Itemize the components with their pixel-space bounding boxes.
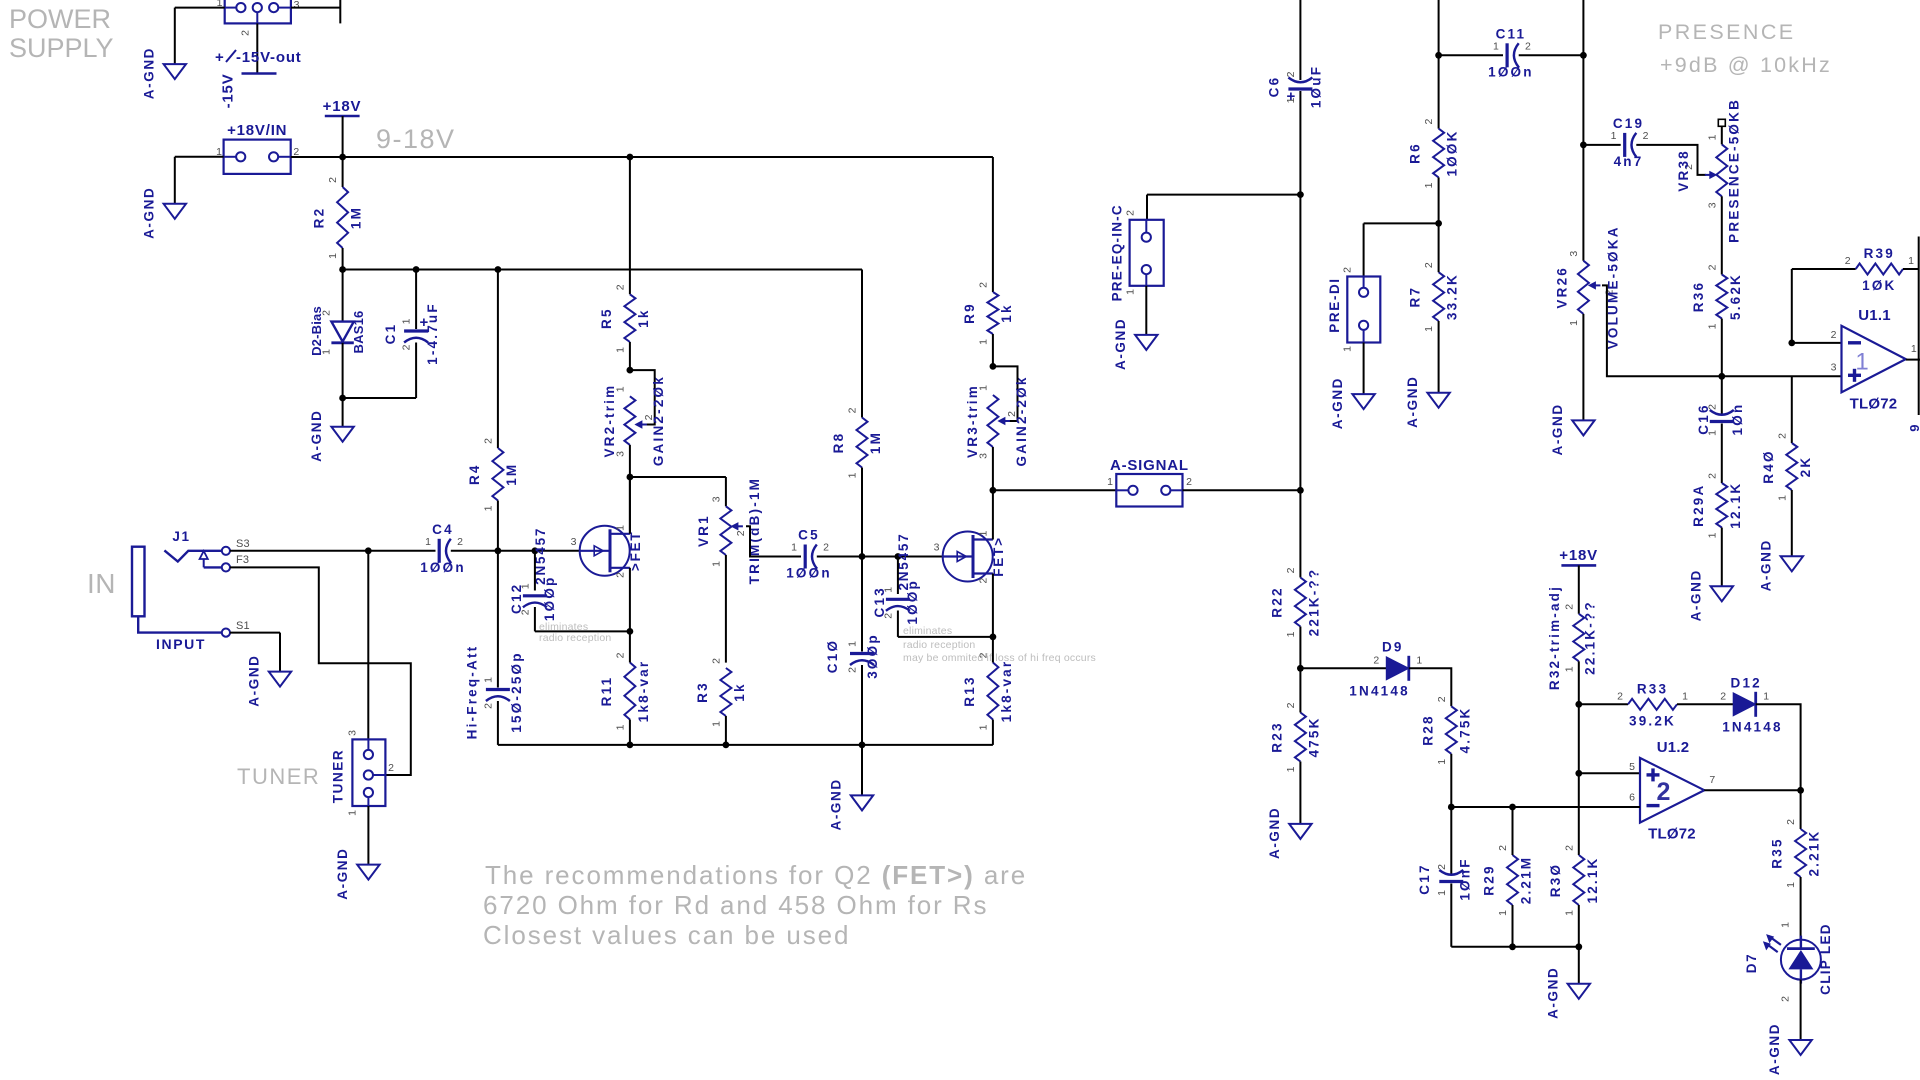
- svg-text:+18V: +18V: [1559, 547, 1598, 564]
- wire: [1579, 703, 1628, 705]
- wire: [1578, 565, 1580, 613]
- svg-text:1: 1: [1911, 343, 1917, 355]
- junction: [990, 487, 997, 494]
- svg-text:GAIN2-2Øk: GAIN2-2Øk: [1014, 375, 1029, 466]
- svg-text:+: +: [215, 49, 224, 66]
- capacitor C19 (4n7): [1611, 116, 1649, 169]
- svg-text:2: 2: [1285, 702, 1297, 708]
- junction: [1797, 787, 1804, 794]
- svg-text:A-GND: A-GND: [1545, 967, 1560, 1019]
- svg-text:PRESENCE-5ØKB: PRESENCE-5ØKB: [1726, 98, 1741, 243]
- svg-text:S3: S3: [236, 538, 250, 550]
- wire: [1147, 194, 1300, 196]
- junction: [627, 628, 634, 635]
- wire: [415, 343, 417, 399]
- svg-text:1N4148: 1N4148: [1722, 719, 1783, 734]
- svg-text:1: 1: [615, 525, 627, 531]
- svg-text:C1: C1: [383, 323, 398, 345]
- svg-text:1: 1: [1423, 326, 1435, 332]
- wire: [817, 556, 862, 558]
- potentiometer VR3-trim (GAIN2-20k): [965, 375, 1029, 466]
- resistor R6 (100K): [1408, 119, 1460, 189]
- connector TUNER (3-pin): [331, 730, 395, 816]
- resistor R8 (1M): [831, 407, 883, 478]
- wire: [1677, 703, 1733, 705]
- svg-text:R3: R3: [695, 681, 710, 703]
- svg-text:A-GND: A-GND: [309, 410, 324, 462]
- svg-text:1: 1: [1855, 349, 1869, 376]
- junction: [1297, 487, 1304, 494]
- wire: [343, 397, 417, 399]
- svg-text:INPUT: INPUT: [156, 636, 206, 652]
- svg-text:D7: D7: [1744, 953, 1759, 973]
- connector PRE-EQ-IN-C (2-pin): [1110, 204, 1164, 301]
- svg-text:1: 1: [1563, 910, 1575, 916]
- svg-text:1: 1: [977, 339, 989, 345]
- wire ground bus: [498, 744, 993, 746]
- svg-text:1ØK: 1ØK: [1862, 278, 1896, 293]
- resistor R39 (10K): [1845, 246, 1914, 293]
- svg-text:PRE-EQ-IN-C: PRE-EQ-IN-C: [1110, 204, 1125, 301]
- junction: [1575, 770, 1582, 777]
- svg-text:1ØnF: 1ØnF: [1457, 857, 1472, 900]
- svg-text:R35: R35: [1770, 837, 1785, 868]
- svg-text:6: 6: [1629, 792, 1635, 804]
- svg-text:2: 2: [1497, 845, 1509, 851]
- svg-text:IN: IN: [87, 568, 116, 599]
- wire: [629, 720, 631, 745]
- wire: [629, 157, 631, 294]
- svg-text:1: 1: [1125, 289, 1137, 295]
- svg-text:S1: S1: [236, 620, 250, 632]
- svg-text:TLØ72: TLØ72: [1850, 395, 1898, 412]
- wire: [1578, 947, 1580, 984]
- svg-text:2: 2: [1845, 255, 1851, 267]
- wire ground bus 2: [1451, 946, 1579, 948]
- svg-text:1: 1: [847, 472, 859, 478]
- junction: [1575, 943, 1582, 950]
- svg-text:2.21K: 2.21K: [1807, 829, 1822, 876]
- svg-text:1: 1: [614, 347, 626, 353]
- wire: [897, 611, 899, 637]
- svg-text:1: 1: [519, 583, 531, 589]
- power -15V: [220, 74, 277, 109]
- ground A-GND: [1550, 403, 1595, 455]
- svg-text:A-GND: A-GND: [1267, 807, 1282, 859]
- power +18V: [323, 98, 362, 116]
- wire: [1918, 237, 1920, 416]
- svg-text:2: 2: [321, 310, 333, 316]
- wire: [535, 550, 579, 552]
- wire +18V rail: [291, 156, 993, 158]
- resistor R4 (1M): [467, 438, 519, 512]
- svg-text:1: 1: [425, 536, 431, 548]
- svg-text:2: 2: [1285, 71, 1297, 77]
- svg-text:A-GND: A-GND: [1330, 377, 1345, 429]
- resistor R9 (1k): [962, 282, 1014, 345]
- capacitor C10 (300p): [825, 633, 880, 679]
- wire: [1409, 668, 1452, 706]
- text eliminates radio reception (Q2): [903, 625, 1096, 664]
- svg-text:3: 3: [1568, 251, 1580, 257]
- svg-text:1: 1: [1776, 495, 1788, 501]
- wire: [1721, 376, 1723, 414]
- svg-text:+18V: +18V: [323, 98, 362, 115]
- svg-text:Closest values can be used: Closest values can be used: [483, 920, 850, 950]
- svg-text:R29: R29: [1482, 864, 1497, 895]
- svg-text:radio reception: radio reception: [539, 632, 611, 644]
- op-amp U1.2 (TL072): [1629, 739, 1715, 843]
- wire: [725, 477, 727, 506]
- svg-text:3: 3: [1831, 361, 1837, 373]
- wire: [1721, 424, 1723, 484]
- svg-text:BAS16: BAS16: [351, 311, 366, 354]
- wire: [1299, 668, 1301, 712]
- wire: [1450, 884, 1452, 947]
- svg-text:2: 2: [1780, 996, 1792, 1002]
- svg-text:R29A: R29A: [1691, 484, 1706, 527]
- resistor R13 (1k8-var): [962, 652, 1014, 730]
- resistor R29 (2.21M): [1482, 845, 1534, 916]
- svg-text:+18V/IN: +18V/IN: [227, 122, 287, 139]
- junction: [1788, 340, 1795, 347]
- wire: [1299, 627, 1301, 669]
- svg-text:R11: R11: [599, 676, 614, 707]
- svg-text:2: 2: [327, 177, 339, 183]
- svg-text:2: 2: [388, 762, 394, 774]
- svg-text:2: 2: [1656, 778, 1670, 806]
- svg-text:A-GND: A-GND: [1550, 403, 1565, 455]
- svg-text:2K: 2K: [1798, 456, 1813, 478]
- wire: [1299, 91, 1301, 490]
- svg-text:VR1: VR1: [696, 514, 711, 547]
- junction: [723, 742, 730, 749]
- svg-text:TLØ72: TLØ72: [1648, 826, 1696, 843]
- wire: [1721, 528, 1723, 587]
- diode D12 (1N4148): [1720, 675, 1782, 734]
- wire: [1903, 268, 1919, 270]
- resistor R33 (39.2K): [1617, 681, 1688, 728]
- junction: [1448, 804, 1455, 811]
- potentiometer VR26 (VOLUME-50KA): [1554, 225, 1620, 349]
- power +18V: [1559, 547, 1598, 565]
- svg-text:2: 2: [1706, 473, 1718, 479]
- svg-text:+: +: [420, 314, 429, 331]
- junction: [365, 547, 372, 554]
- svg-text:1: 1: [710, 561, 722, 567]
- svg-text:475K: 475K: [1306, 716, 1321, 757]
- svg-text:1: 1: [1780, 922, 1792, 928]
- svg-text:4n7: 4n7: [1614, 154, 1644, 169]
- capacitor C6 (10uF): [1266, 65, 1323, 108]
- wire: [451, 550, 498, 552]
- svg-text:1: 1: [401, 318, 413, 324]
- LED D7 (CLIP LED): [1744, 922, 1833, 1002]
- svg-text:1: 1: [1342, 346, 1354, 352]
- svg-text:1k8-var: 1k8-var: [636, 660, 651, 723]
- ground A-GND: [1113, 318, 1158, 370]
- potentiometer VR38 (PRESENCE-50KB): [1676, 98, 1742, 243]
- svg-text:R6: R6: [1408, 142, 1423, 164]
- resistor R7 (33.2K): [1408, 262, 1460, 332]
- ground A-GND: [1758, 539, 1803, 591]
- svg-text:1: 1: [1107, 476, 1113, 488]
- svg-text:-15V-out: -15V-out: [236, 49, 302, 66]
- svg-text:1ØuF: 1ØuF: [1308, 65, 1323, 108]
- ground A-GND: [1330, 377, 1375, 429]
- svg-text:2: 2: [482, 703, 494, 709]
- wire bias bus: [343, 269, 862, 271]
- wire: [256, 23, 258, 73]
- wire: [1578, 704, 1580, 773]
- wire: [291, 7, 340, 9]
- svg-text:A-GND: A-GND: [1113, 318, 1128, 370]
- svg-text:C17: C17: [1417, 863, 1432, 894]
- wire: [497, 501, 499, 551]
- junction: [413, 266, 420, 273]
- junction: [1435, 52, 1442, 59]
- svg-text:2: 2: [1373, 654, 1379, 666]
- junction: [1509, 804, 1516, 811]
- svg-text:J1: J1: [172, 529, 190, 544]
- wire: [342, 343, 344, 398]
- svg-text:R5: R5: [599, 307, 614, 329]
- potentiometer VR2-trim (GAIN2-20k): [602, 375, 666, 466]
- op-amp U1.1 (TL072): [1831, 307, 1917, 413]
- resistor R35 (2.21K): [1770, 819, 1822, 888]
- wire: [342, 157, 344, 187]
- wire: [629, 445, 631, 477]
- svg-text:2: 2: [1436, 864, 1448, 870]
- wire: [861, 557, 863, 652]
- svg-text:2: 2: [519, 609, 531, 615]
- svg-text:A-GND: A-GND: [247, 654, 262, 706]
- svg-text:-15V: -15V: [220, 74, 237, 109]
- wire: [725, 716, 727, 745]
- wire: [1721, 196, 1723, 274]
- svg-text:U1.2: U1.2: [1657, 739, 1690, 756]
- svg-text:1: 1: [1682, 690, 1688, 702]
- svg-text:>FET: >FET: [628, 531, 643, 572]
- svg-text:1: 1: [1908, 255, 1914, 267]
- svg-text:A-GND: A-GND: [335, 847, 350, 899]
- net label +/-15V-out: [215, 49, 302, 66]
- svg-text:2: 2: [1186, 476, 1192, 488]
- wire VR2 feedback loop: [630, 370, 655, 424]
- svg-text:2: 2: [1342, 267, 1354, 273]
- wire: [1299, 490, 1301, 577]
- capacitor C4 (100n): [420, 522, 466, 575]
- wire: [862, 556, 898, 558]
- capacitor C1 (1-4.7uF): [383, 302, 440, 365]
- resistor R32-trim-adj (22.1K-??): [1547, 585, 1598, 690]
- wire: [1438, 321, 1440, 393]
- wire: [1792, 268, 1856, 270]
- wire: [1791, 376, 1793, 443]
- svg-text:1M: 1M: [349, 206, 364, 229]
- svg-text:1: 1: [978, 530, 990, 536]
- wire: [629, 631, 631, 662]
- svg-text:R32-trim-adj: R32-trim-adj: [1547, 585, 1562, 690]
- wire: [535, 630, 630, 632]
- svg-text:R4: R4: [467, 463, 482, 485]
- svg-text:D12: D12: [1731, 675, 1762, 690]
- svg-text:1: 1: [1763, 690, 1769, 702]
- svg-text:2: 2: [847, 667, 859, 673]
- svg-text:2: 2: [1125, 210, 1137, 216]
- wire: [1450, 754, 1452, 807]
- svg-text:1ØØK: 1ØØK: [1445, 129, 1460, 176]
- svg-text:R2: R2: [312, 207, 327, 229]
- wire: [230, 632, 280, 634]
- svg-text:2: 2: [401, 344, 413, 350]
- wire: [1300, 667, 1386, 669]
- svg-text:2: 2: [1436, 696, 1448, 702]
- svg-text:2: 2: [1706, 404, 1718, 410]
- wire: [1183, 489, 1301, 491]
- junction: [627, 154, 634, 161]
- junction: [495, 266, 502, 273]
- wire: [415, 270, 417, 330]
- wire: [368, 550, 435, 552]
- junction: [1297, 191, 1304, 198]
- svg-text:5: 5: [1629, 761, 1635, 773]
- wire: [1438, 177, 1440, 223]
- svg-text:9-18V: 9-18V: [376, 124, 456, 154]
- svg-text:A-GND: A-GND: [1688, 569, 1703, 621]
- svg-text:6720 Ohm for Rd and 458 Ohm fo: 6720 Ohm for Rd and 458 Ohm for Rs: [483, 890, 988, 920]
- svg-text:2: 2: [240, 30, 252, 36]
- wire: [1519, 54, 1584, 56]
- diode D9 (1N4148): [1349, 639, 1422, 698]
- svg-text:2: 2: [1563, 845, 1575, 851]
- svg-text:1ØØn: 1ØØn: [786, 566, 832, 581]
- wire: [1512, 905, 1514, 947]
- wire: [630, 476, 726, 478]
- wire: [534, 607, 536, 631]
- svg-text:A-GND: A-GND: [141, 187, 156, 239]
- svg-text:VR2-trim: VR2-trim: [602, 384, 617, 458]
- svg-text:1: 1: [482, 677, 494, 683]
- junction: [1580, 52, 1587, 59]
- wire: [993, 489, 1116, 491]
- svg-text:3: 3: [294, 0, 300, 11]
- svg-text:1: 1: [1285, 631, 1297, 637]
- svg-text:1: 1: [882, 587, 894, 593]
- wire: [992, 637, 994, 663]
- svg-text:1: 1: [977, 385, 989, 391]
- wire: [1578, 773, 1580, 855]
- svg-text:TUNER: TUNER: [237, 764, 320, 789]
- resistor R22 (221K-??): [1269, 567, 1321, 637]
- svg-text:1M: 1M: [504, 463, 519, 486]
- svg-text:1: 1: [1706, 430, 1718, 436]
- wire: [497, 701, 499, 745]
- svg-text:1: 1: [791, 542, 797, 554]
- svg-text:Hi-Freq-Att: Hi-Freq-Att: [464, 645, 479, 740]
- svg-text:39.2K: 39.2K: [1629, 713, 1676, 728]
- wire: [629, 568, 631, 632]
- wire: [1299, 762, 1301, 824]
- wire: [1364, 222, 1439, 224]
- svg-text:15Ø-25Øp: 15Ø-25Øp: [509, 651, 524, 732]
- svg-text:A-GND: A-GND: [1758, 539, 1773, 591]
- svg-text:R3Ø: R3Ø: [1548, 863, 1563, 897]
- wire: [230, 550, 368, 552]
- capacitor C5 (100n): [786, 528, 832, 581]
- wire: [861, 745, 863, 796]
- wire: [279, 633, 281, 672]
- svg-text:3: 3: [977, 453, 989, 459]
- svg-text:2: 2: [1776, 433, 1788, 439]
- wire: [174, 8, 176, 65]
- wire: [367, 806, 369, 865]
- svg-text:C11: C11: [1496, 26, 1527, 41]
- capacitor Hi-Freq-Att (150-250p): [464, 645, 524, 740]
- wire: [1578, 661, 1580, 704]
- svg-text:VR26: VR26: [1554, 266, 1569, 309]
- wire: [1791, 269, 1793, 343]
- wire: [861, 270, 863, 418]
- svg-text:1N4148: 1N4148: [1349, 683, 1410, 698]
- wire: [1791, 490, 1793, 556]
- wire: [342, 248, 344, 270]
- resistor R3 (1k): [695, 658, 747, 727]
- svg-text:eliminates: eliminates: [903, 625, 952, 637]
- wire: [898, 556, 943, 558]
- svg-text:1ØØn: 1ØØn: [1488, 64, 1534, 79]
- svg-text:2: 2: [614, 284, 626, 290]
- svg-text:C4: C4: [432, 522, 454, 537]
- connector A-SIGNAL (2-pin): [1107, 457, 1192, 507]
- svg-text:221K-??: 221K-??: [1306, 568, 1321, 637]
- svg-text:5.62K: 5.62K: [1728, 273, 1743, 320]
- svg-text:33.2K: 33.2K: [1445, 273, 1460, 320]
- wire: [497, 551, 499, 688]
- wire: [1722, 375, 1842, 377]
- wire: [175, 7, 225, 9]
- svg-text:1ØØp: 1ØØp: [542, 576, 557, 622]
- ground A-GND: [829, 778, 874, 830]
- svg-text:2: 2: [1706, 264, 1718, 270]
- svg-text:C6: C6: [1266, 76, 1281, 98]
- svg-text:VR38: VR38: [1676, 149, 1691, 192]
- transistor Q2 (2N5457 FET&gt;): [896, 530, 1006, 590]
- svg-text:R13: R13: [962, 675, 977, 706]
- svg-text:2: 2: [1423, 262, 1435, 268]
- svg-text:R9: R9: [962, 302, 977, 324]
- wire: [1582, 0, 1584, 55]
- ground A-GND: [335, 847, 380, 899]
- svg-text:A-SIGNAL: A-SIGNAL: [1110, 457, 1189, 474]
- wire: [1363, 343, 1365, 395]
- net label (clipped): [1907, 424, 1920, 431]
- svg-text:3: 3: [571, 536, 577, 548]
- wire: [174, 157, 176, 204]
- wire: [1299, 0, 1301, 80]
- wire: [1438, 0, 1440, 55]
- svg-text:1: 1: [1497, 910, 1509, 916]
- wire: [992, 720, 994, 745]
- svg-text:1k: 1k: [999, 303, 1014, 322]
- svg-text:1: 1: [847, 641, 859, 647]
- wire: [1583, 144, 1620, 146]
- wire: [898, 636, 993, 638]
- ground A-GND: [1545, 967, 1590, 1019]
- wire: [897, 557, 899, 595]
- svg-text:2: 2: [1525, 40, 1531, 52]
- svg-text:1ØØn: 1ØØn: [420, 560, 466, 575]
